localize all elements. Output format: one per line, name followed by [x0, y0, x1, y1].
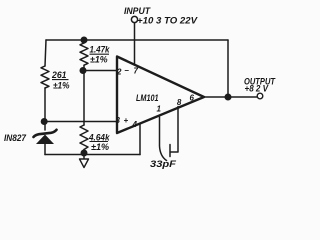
svg-text:±1%: ±1% — [91, 142, 109, 152]
svg-text:3: 3 — [116, 116, 121, 125]
svg-text:2: 2 — [116, 67, 122, 76]
svg-text:LM101: LM101 — [136, 93, 159, 104]
svg-text:8: 8 — [177, 98, 182, 107]
svg-text:+: + — [124, 116, 129, 125]
svg-text:1: 1 — [157, 104, 162, 113]
svg-text:–: – — [125, 66, 130, 75]
svg-text:261: 261 — [51, 70, 66, 80]
svg-text:IN827: IN827 — [4, 133, 27, 144]
svg-text:6: 6 — [190, 93, 195, 102]
svg-text:+10 3 TO 22V: +10 3 TO 22V — [137, 16, 199, 27]
svg-text:7: 7 — [134, 66, 139, 75]
svg-text:33pF: 33pF — [150, 159, 177, 170]
svg-text:±1%: ±1% — [90, 55, 108, 65]
svg-text:+8 2 V: +8 2 V — [245, 84, 270, 95]
svg-text:1.47k: 1.47k — [90, 44, 111, 54]
svg-text:±1%: ±1% — [53, 80, 70, 90]
svg-text:4: 4 — [132, 120, 138, 129]
